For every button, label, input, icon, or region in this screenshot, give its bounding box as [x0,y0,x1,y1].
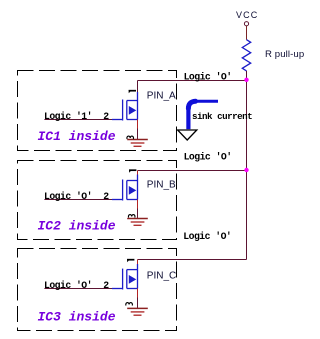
svg-text:PIN_A: PIN_A [147,90,176,101]
svg-text:VCC: VCC [236,10,258,20]
svg-text:Logic 'O': Logic 'O' [184,71,232,82]
svg-text:Logic '1': Logic '1' [44,111,92,122]
svg-text:2: 2 [103,280,109,291]
svg-text:2: 2 [103,111,109,122]
svg-text:PIN_B: PIN_B [147,180,176,191]
svg-text:IC3 inside: IC3 inside [38,310,116,325]
svg-text:2: 2 [103,191,109,202]
svg-text:PIN_C: PIN_C [147,270,176,281]
svg-text:Logic 'O': Logic 'O' [184,151,232,162]
svg-text:IC2 inside: IC2 inside [38,219,116,234]
svg-text:IC1 inside: IC1 inside [38,129,116,144]
svg-text:sink current: sink current [192,111,252,122]
svg-text:R pull-up: R pull-up [265,49,304,60]
svg-text:Logic 'O': Logic 'O' [183,231,231,242]
svg-text:Logic 'O': Logic 'O' [44,191,92,202]
svg-text:Logic 'O': Logic 'O' [44,280,92,291]
